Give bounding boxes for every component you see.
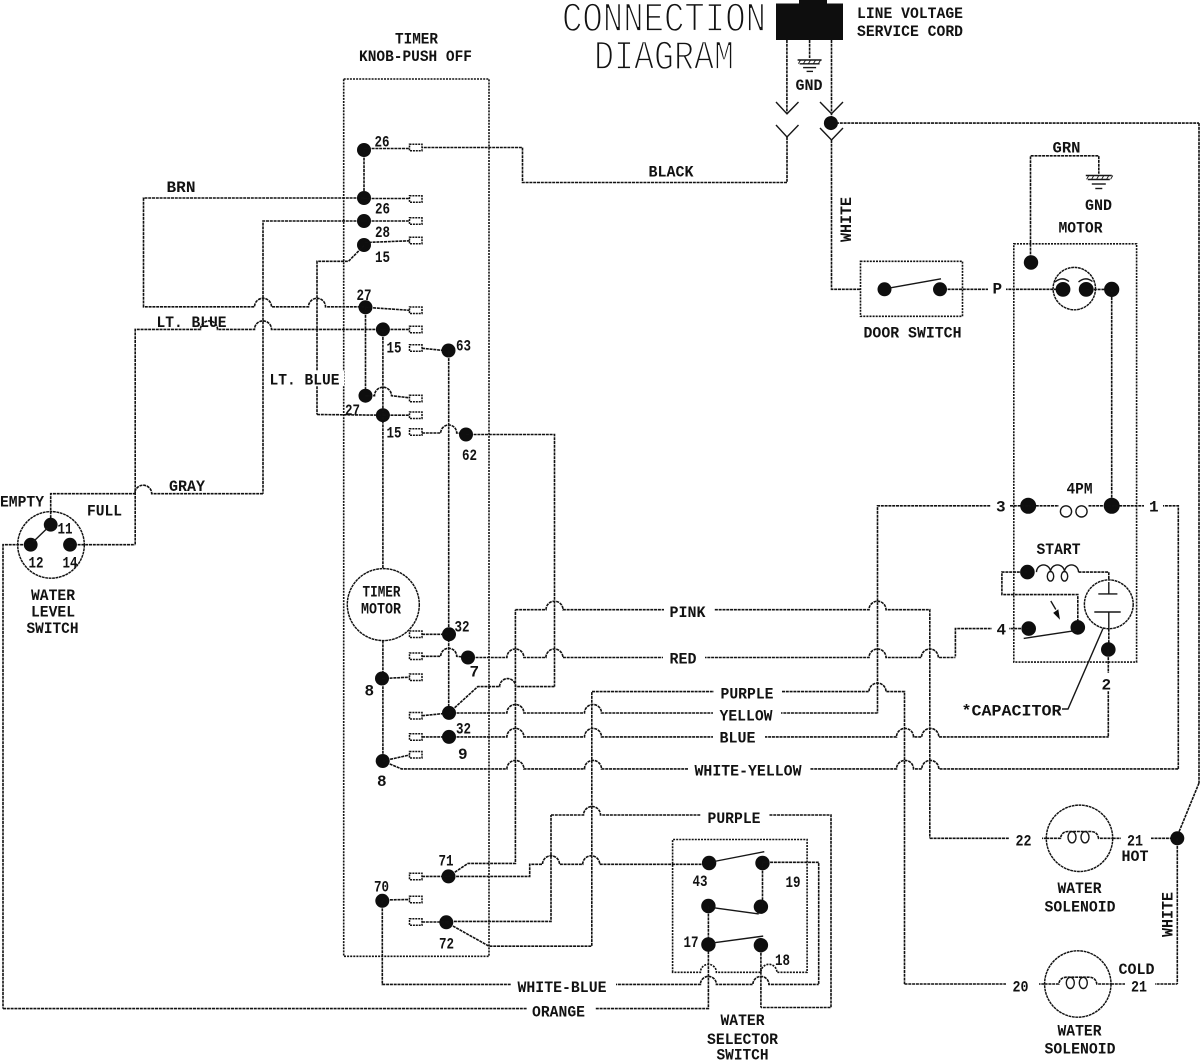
- node pin 18: [754, 938, 768, 952]
- wire 15a to contact: [383, 328, 410, 330]
- node pin 12: [24, 538, 38, 552]
- selector arm mid: [714, 908, 759, 914]
- label WHITE-YELLOW: [688, 760, 810, 781]
- junction dot line-in: [824, 116, 838, 130]
- water selector switch box: [673, 840, 808, 973]
- svg-text:WHITE: WHITE: [1160, 892, 1178, 937]
- svg-text:SERVICE CORD: SERVICE CORD: [857, 23, 963, 41]
- start winding coil: [1037, 565, 1079, 581]
- label P: [988, 281, 1006, 299]
- svg-text:ORANGE: ORANGE: [532, 1004, 585, 1022]
- svg-text:GRAY: GRAY: [169, 478, 205, 496]
- node pin 27b: [359, 389, 373, 403]
- wire left prong: [786, 40, 788, 113]
- node pin 26b: [357, 191, 371, 205]
- svg-text:EMPTY: EMPTY: [0, 494, 44, 512]
- node pin 9: [442, 730, 456, 744]
- wire 15b to contact: [383, 414, 410, 416]
- wire pin 18 drop: [760, 945, 762, 1007]
- node pin 15u: [357, 238, 371, 252]
- svg-text:11: 11: [58, 521, 73, 539]
- wire 62 to right drop: [466, 435, 555, 687]
- contact 72: [410, 919, 423, 926]
- wire contact 62 with hop: [422, 425, 466, 434]
- node pin 26a: [357, 143, 371, 157]
- wire right prong: [831, 40, 833, 117]
- svg-text:DIAGRAM: DIAGRAM: [594, 35, 734, 83]
- label PURPLE lower: [701, 807, 769, 828]
- svg-text:P: P: [993, 281, 1003, 299]
- timer motor circle: [347, 569, 419, 641]
- svg-text:COLD: COLD: [1119, 961, 1155, 979]
- svg-text:GND: GND: [1085, 197, 1112, 215]
- svg-text:KNOB-PUSH OFF: KNOB-PUSH OFF: [359, 48, 472, 66]
- node pin 8b: [376, 754, 390, 768]
- svg-text:PURPLE: PURPLE: [708, 810, 761, 828]
- node pin 17: [701, 937, 715, 951]
- svg-text:8: 8: [377, 773, 387, 791]
- capacitor circle: [1084, 580, 1133, 629]
- door switch contact right: [933, 282, 947, 296]
- svg-text:71: 71: [439, 853, 454, 871]
- overload protector circle: [1053, 267, 1095, 309]
- svg-text:12: 12: [29, 555, 44, 573]
- contact 27a: [410, 307, 423, 314]
- svg-text:LEVEL: LEVEL: [31, 604, 75, 622]
- wire 21 cold: [1111, 983, 1177, 985]
- label 21 hot: [1121, 830, 1151, 851]
- wire contact to 32b: [422, 713, 449, 716]
- node pin 32b: [442, 706, 456, 720]
- svg-text:63: 63: [456, 338, 471, 356]
- svg-text:SOLENOID: SOLENOID: [1045, 1041, 1116, 1059]
- svg-text:19: 19: [786, 874, 801, 892]
- contact 26a: [410, 144, 423, 151]
- wire contact to 63: [422, 348, 442, 350]
- label TIMER MOTOR: [361, 584, 401, 619]
- svg-text:4: 4: [997, 622, 1007, 640]
- wire 8a to contact: [382, 677, 410, 678]
- wire PURPLE upper: [592, 683, 905, 984]
- contact 27b: [410, 395, 423, 402]
- contact 71: [410, 873, 423, 880]
- wire pin 1 to right drop: [1112, 506, 1179, 769]
- wire 27a to contact: [366, 307, 410, 310]
- svg-text:14: 14: [63, 555, 78, 573]
- svg-text:70: 70: [374, 879, 389, 897]
- wire 15a-15b link and to timer motor: [382, 329, 384, 568]
- wire LT BLUE lower to 15b: [317, 414, 383, 417]
- timer box: [344, 79, 489, 956]
- wire BRN: [144, 198, 366, 307]
- svg-text:FULL: FULL: [87, 503, 122, 521]
- svg-text:4PM: 4PM: [1067, 481, 1093, 499]
- protector dot left: [1056, 282, 1071, 297]
- wire ORANGE: [3, 945, 708, 1009]
- cold water solenoid circle: [1045, 951, 1111, 1017]
- svg-text:3: 3: [996, 499, 1006, 517]
- svg-text:21: 21: [1131, 979, 1147, 997]
- label 2: [1100, 673, 1117, 695]
- label PURPLE upper: [714, 683, 782, 704]
- label 4: [992, 621, 1009, 640]
- wire 71 to selector 43: [449, 856, 710, 877]
- wire motor right branch down: [1111, 289, 1113, 505]
- node start winding dot: [1020, 565, 1035, 580]
- wire contact to 71: [422, 875, 449, 877]
- wire right edge down (white net): [1198, 123, 1200, 783]
- wire black drop from chevron: [786, 137, 788, 183]
- label WATER SELECTOR SWITCH: [707, 1012, 778, 1060]
- connector chevron left upper: [776, 102, 799, 114]
- node pin 72: [439, 915, 453, 929]
- label WATER LEVEL SWITCH: [27, 587, 79, 638]
- node pin 43: [702, 856, 716, 870]
- svg-text:20: 20: [1013, 979, 1029, 997]
- svg-text:WHITE: WHITE: [838, 197, 856, 242]
- svg-text:MOTOR: MOTOR: [1059, 220, 1103, 238]
- svg-text:17: 17: [684, 934, 699, 952]
- selector arm 17: [714, 936, 764, 943]
- node GRN dot in motor: [1024, 255, 1038, 269]
- svg-text:GRN: GRN: [1053, 140, 1081, 158]
- svg-text:72: 72: [439, 936, 454, 954]
- node pin 7: [461, 651, 475, 665]
- node selector top right: [755, 856, 769, 870]
- wire ground prong: [809, 40, 811, 58]
- contact 32a: [410, 631, 423, 638]
- svg-text:SOLENOID: SOLENOID: [1045, 899, 1116, 917]
- svg-text:LT. BLUE: LT. BLUE: [157, 314, 227, 332]
- label ORANGE: [527, 1000, 595, 1022]
- contact 8a: [410, 674, 423, 681]
- svg-text:TIMER: TIMER: [363, 584, 401, 602]
- wire 26b to contact: [364, 198, 410, 200]
- protector dot right: [1079, 282, 1094, 297]
- connector chevron right upper: [820, 102, 843, 114]
- contact 15u: [410, 237, 423, 244]
- wire LT BLUE upper: [135, 321, 383, 545]
- wire protector to pin P node: [1086, 288, 1112, 290]
- wire 15u diagonal to lt-blue2 stub: [317, 246, 364, 415]
- node pin 28: [357, 214, 371, 228]
- svg-text:62: 62: [462, 447, 477, 465]
- wire PURPLE lower: [551, 807, 831, 1008]
- svg-text:2: 2: [1102, 677, 1112, 695]
- node pin 1 dot: [1104, 498, 1120, 514]
- svg-text:SWITCH: SWITCH: [27, 620, 79, 638]
- svg-text:WATER: WATER: [1058, 880, 1102, 898]
- wire 27b hop to contact: [366, 387, 410, 398]
- svg-text:SWITCH: SWITCH: [717, 1047, 769, 1060]
- title CONNECTION DIAGRAM: [562, 0, 766, 83]
- wire pin 4 from RED elbow: [955, 629, 1028, 657]
- svg-text:MOTOR: MOTOR: [361, 601, 401, 619]
- wire 32b diagonal to 62 link: [449, 679, 555, 713]
- switch motion arrow: [1051, 601, 1060, 620]
- cold solenoid coil: [1045, 977, 1111, 988]
- svg-text:WHITE-BLUE: WHITE-BLUE: [518, 979, 607, 997]
- label RED: [663, 648, 705, 669]
- wire mid-left to 17: [707, 906, 709, 945]
- svg-text:HOT: HOT: [1122, 848, 1149, 866]
- node pin 32a: [442, 627, 456, 641]
- contact 8b: [410, 752, 423, 759]
- svg-text:DOOR SWITCH: DOOR SWITCH: [864, 325, 962, 343]
- door switch arm: [891, 279, 942, 288]
- wire capacitor bottom: [1108, 629, 1110, 650]
- wire pin 2 drop: [1107, 650, 1109, 737]
- label YELLOW: [713, 705, 781, 726]
- capacitor pointer line: [1062, 629, 1103, 710]
- svg-text:15: 15: [387, 425, 402, 443]
- water level switch circle: [18, 512, 85, 579]
- wire 72 diagonal to purple riser: [446, 692, 592, 947]
- ground symbol (service cord): [798, 60, 822, 71]
- plug (line voltage service cord): [776, 0, 843, 40]
- label 21 cold: [1125, 976, 1155, 997]
- label WHITE-BLUE: [511, 976, 616, 997]
- wire white drop to cold: [1176, 838, 1178, 984]
- wire 27a-27b link: [365, 307, 367, 395]
- label 3: [991, 498, 1010, 517]
- node selector mid left: [701, 899, 715, 913]
- wire 26a to contact: [364, 148, 410, 150]
- wire 70 to contact: [382, 899, 409, 902]
- ground symbol (motor): [1086, 176, 1113, 189]
- wire GRN: [1031, 156, 1099, 262]
- node pin 15b: [376, 408, 390, 422]
- svg-text:WATER: WATER: [31, 587, 75, 605]
- node pin 15a: [376, 322, 390, 336]
- contact 9: [410, 734, 423, 741]
- door switch contact left: [878, 282, 892, 296]
- wire contact to 72: [422, 921, 446, 923]
- svg-text:BLUE: BLUE: [720, 730, 756, 748]
- node pin 8a: [375, 672, 389, 686]
- wire WHITE vertical to door switch: [832, 140, 861, 289]
- protector contact arcs: [1055, 279, 1093, 282]
- wire 26a-26b link: [363, 150, 365, 198]
- node pin 62: [459, 428, 473, 442]
- wire GRAY: [51, 485, 263, 518]
- wire PINK: [515, 601, 929, 838]
- wire 72 to purple lower riser: [446, 815, 551, 921]
- svg-text:15: 15: [375, 249, 390, 267]
- connector chevron left lower: [776, 125, 799, 137]
- wire start coil to capacitor top: [1079, 572, 1109, 580]
- svg-text:7: 7: [470, 664, 480, 682]
- node capacitor bottom dot: [1101, 642, 1116, 657]
- wire pin 12 to left edge: [3, 545, 31, 1009]
- motor box: [1014, 244, 1137, 662]
- wire 15u to contact: [365, 241, 410, 243]
- node pin 63: [442, 344, 456, 358]
- svg-text:GND: GND: [796, 77, 823, 95]
- svg-text:PURPLE: PURPLE: [721, 686, 774, 704]
- svg-text:1: 1: [1149, 499, 1159, 517]
- wire 28 to gray drop: [263, 221, 364, 494]
- svg-text:TIMER: TIMER: [395, 31, 438, 49]
- hot water solenoid circle: [1046, 805, 1112, 871]
- label 22: [1009, 830, 1042, 851]
- node solenoid junction dot: [1170, 831, 1184, 845]
- capacitor plates: [1094, 582, 1120, 629]
- label LINE VOLTAGE SERVICE CORD: [857, 5, 963, 41]
- contact 32b: [410, 713, 423, 720]
- node pin 4 dot: [1021, 621, 1036, 636]
- node pin 14: [63, 538, 77, 552]
- svg-text:PINK: PINK: [670, 604, 706, 622]
- contact 62: [410, 429, 423, 436]
- label WATER SOLENOID hot: [1045, 880, 1116, 917]
- svg-text:START: START: [1037, 541, 1081, 559]
- contact 70: [410, 896, 423, 903]
- node pin 3 dot: [1020, 498, 1036, 514]
- label LT. BLUE lower: [269, 371, 344, 390]
- wire door switch to motor P: [940, 288, 1063, 290]
- svg-text:43: 43: [693, 873, 708, 891]
- main winding 4PM coil: [1028, 506, 1112, 517]
- svg-text:22: 22: [1016, 833, 1032, 851]
- wire 63 vertical: [448, 351, 450, 713]
- svg-text:LT. BLUE: LT. BLUE: [270, 372, 340, 390]
- connector chevron right lower: [820, 128, 843, 140]
- water level switch arm: [34, 528, 48, 542]
- wire 28 to contact: [364, 220, 410, 222]
- contact 26b: [410, 196, 423, 203]
- wire diagonal to solenoid junction (white net): [1177, 783, 1199, 836]
- wire BLUE: [449, 728, 1109, 737]
- svg-text:*CAPACITOR: *CAPACITOR: [962, 703, 1062, 721]
- wire YELLOW: [449, 705, 878, 714]
- wire contact 7 hop: [422, 648, 468, 657]
- contact 7: [410, 653, 423, 660]
- wire 71 to pink riser: [449, 610, 516, 877]
- contact 15a: [410, 326, 423, 333]
- svg-text:BRN: BRN: [167, 179, 196, 197]
- label BLUE: [713, 728, 765, 748]
- contact 15b: [410, 412, 423, 419]
- node switch contact dot: [1071, 620, 1086, 635]
- wire start dot elbow to switch contact: [1002, 572, 1078, 620]
- door switch box: [861, 261, 963, 316]
- label 1: [1144, 498, 1163, 517]
- svg-text:YELLOW: YELLOW: [720, 708, 773, 726]
- svg-text:WATER: WATER: [1058, 1023, 1102, 1041]
- wire pin 14 to full riser: [70, 544, 135, 546]
- svg-text:28: 28: [375, 224, 390, 242]
- wire 8b diag to contact: [383, 755, 410, 761]
- wire 20: [905, 983, 1045, 985]
- node pin 70: [375, 894, 389, 908]
- label PINK: [664, 601, 714, 622]
- selector arm 43: [714, 852, 764, 862]
- node pin 11: [44, 518, 58, 532]
- start switch arm: [1024, 630, 1077, 638]
- contact 28: [410, 218, 423, 225]
- svg-text:32: 32: [456, 721, 471, 739]
- svg-text:WHITE-YELLOW: WHITE-YELLOW: [695, 763, 802, 781]
- wire 21 hot: [1113, 837, 1171, 839]
- label WATER SOLENOID cold: [1045, 1023, 1116, 1059]
- label 20: [1006, 976, 1039, 997]
- wire 22: [930, 837, 1047, 839]
- svg-text:32: 32: [455, 619, 470, 637]
- node pin 27a: [359, 300, 373, 314]
- wire WHITE-YELLOW: [383, 760, 1179, 769]
- svg-text:WATER: WATER: [721, 1012, 765, 1030]
- wire pin 3 to left corner: [878, 506, 1029, 713]
- svg-text:9: 9: [458, 746, 468, 764]
- svg-text:LINE VOLTAGE: LINE VOLTAGE: [857, 5, 963, 23]
- svg-text:26: 26: [375, 201, 390, 219]
- svg-text:8: 8: [365, 683, 375, 701]
- node selector mid right: [754, 900, 768, 914]
- svg-text:18: 18: [775, 952, 790, 970]
- wire BLACK horizontal: [422, 148, 787, 183]
- hot solenoid coil: [1046, 832, 1112, 843]
- wire 19 to white-blue drop: [763, 862, 819, 984]
- wire timer motor to pin 8a: [382, 641, 384, 761]
- svg-text:BLACK: BLACK: [649, 164, 694, 182]
- wire contact to 32a: [422, 633, 449, 635]
- wire RED: [468, 649, 955, 658]
- contact 63: [410, 345, 423, 352]
- svg-text:15: 15: [387, 340, 402, 358]
- wire 19 link down: [762, 863, 764, 907]
- wire top to right edge (white net): [836, 122, 1199, 124]
- svg-text:RED: RED: [670, 651, 697, 669]
- node pin 71: [442, 869, 456, 883]
- wire WHITE-BLUE: [382, 901, 818, 985]
- node motor P-side dot: [1104, 282, 1119, 297]
- svg-text:27: 27: [345, 402, 360, 420]
- wire contact to 9: [422, 736, 449, 738]
- svg-text:27: 27: [357, 287, 372, 305]
